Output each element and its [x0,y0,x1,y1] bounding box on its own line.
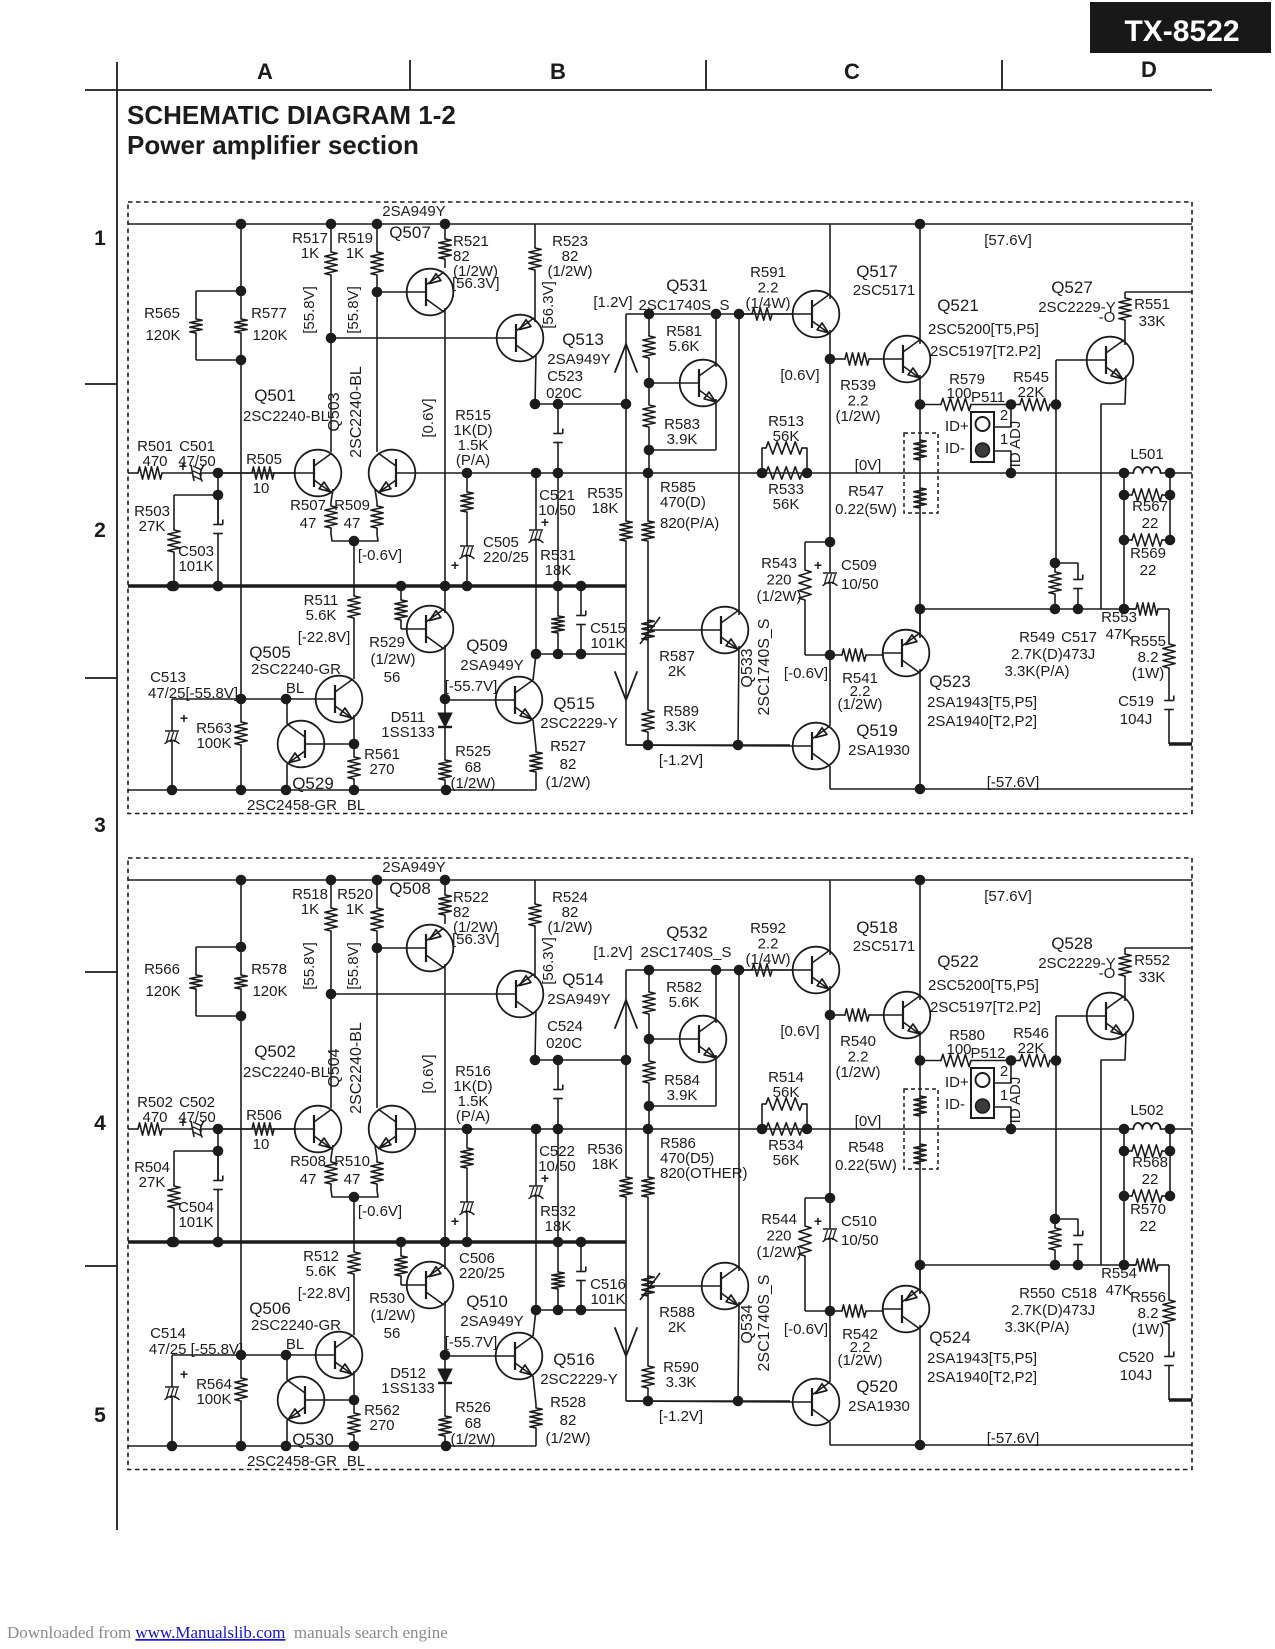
resistor R569 22 [1124,539,1132,541]
wire Q533 emitter [738,1302,739,1401]
svg-text:2SC5200[T5,P5]: 2SC5200[T5,P5] [928,321,1039,338]
wire output line [920,1264,1136,1266]
svg-text:R550: R550 [1019,1285,1055,1302]
wire Q531 collector [715,314,717,367]
svg-text:270: 270 [369,761,394,778]
svg-text:104J: 104J [1120,1367,1153,1384]
capacitor C505 220/25 [466,1192,468,1202]
svg-text:2SA1943[T5,P5]: 2SA1943[T5,P5] [927,1350,1037,1367]
svg-text:(1/2W): (1/2W) [838,1352,883,1369]
wire Q517 emitter [829,986,831,1198]
wire Q519 emitter [829,1311,831,1382]
resistor R587 2K variable [647,1276,649,1286]
junction [281,1441,292,1452]
transistor Q507 2SA949Y [407,269,454,316]
svg-text:R570: R570 [1130,1201,1166,1218]
svg-text:[56.3V]: [56.3V] [540,937,557,985]
resistor R521 82 (1/2W) [444,224,446,239]
wire Q529 base [323,1399,354,1401]
svg-text:R591: R591 [750,264,786,281]
svg-text:1SS133: 1SS133 [381,724,434,741]
transistor Q521 2SC5200 [884,336,931,383]
node Q513 base tap [326,989,337,1000]
wire Q509 emitter [444,1242,446,1269]
svg-text:Q502: Q502 [254,1042,296,1061]
svg-text:(1/4W): (1/4W) [746,295,791,312]
svg-text:Power amplifier section: Power amplifier section [127,130,419,160]
svg-text:2SC2229-Y: 2SC2229-Y [540,715,618,732]
wire Q523 collector [919,669,921,789]
svg-text:220: 220 [766,1228,791,1245]
svg-text:2SC2229-Y: 2SC2229-Y [540,1371,618,1388]
resistor R535 18K [625,1060,627,1177]
svg-text:2.7K(D): 2.7K(D) [1011,646,1063,663]
resistor R539 2.2 (1/2W) [830,358,845,360]
svg-text:5.6K: 5.6K [306,1263,337,1280]
resistor R527 82 (1/2W) [535,1404,537,1408]
svg-text:R569: R569 [1130,545,1166,562]
svg-text:220/25: 220/25 [483,549,529,566]
svg-text:2SA949Y: 2SA949Y [547,991,610,1008]
resistor R565 120K [195,291,197,319]
dashed schematic border [128,202,1192,814]
wire Q517 collector [829,880,831,955]
transistor Q533 2SC1740S_S [702,607,749,654]
wire to output R553 [1123,1196,1125,1265]
resistor R561 270 [353,1400,355,1413]
wire -1.2V line [626,744,790,746]
diode D511 1SS133 [444,699,446,713]
wire Q505 emitter [353,715,355,744]
wire R583 bottom [649,1105,716,1107]
svg-text:Q524: Q524 [929,1328,971,1347]
resistor R543 220 (1/2W) [825,537,836,548]
svg-text:ID+: ID+ [945,418,969,435]
svg-text:1: 1 [94,227,106,250]
svg-text:101K: 101K [178,558,213,575]
wire +57.6V top rail [128,879,1192,881]
resistor R579 100 [920,404,941,406]
svg-text:ID ADJ: ID ADJ [1007,1077,1024,1124]
wire Q507 base [377,291,406,293]
svg-text:27K: 27K [139,1174,166,1191]
svg-text:R552: R552 [1134,952,1170,969]
svg-text:C509: C509 [841,557,877,574]
svg-text:Q530: Q530 [292,1430,334,1449]
wire -57.6V bottom rail right segment [830,788,1192,790]
resistor R521 82 (1/2W) [444,880,446,895]
resistor R539 2.2 (1/2W) [830,1014,845,1016]
resistor R547 0.22(5W) [914,440,926,460]
svg-text:C524: C524 [547,1018,583,1035]
svg-text:2SC2240-GR: 2SC2240-GR [251,661,341,678]
resistor R551 33K [1124,292,1126,298]
wire Q529 emitter [286,1420,288,1446]
transistor Q515 2SC2229-Y [496,677,543,724]
transistor Q517 2SC5171 [793,291,840,338]
svg-text:Q509: Q509 [466,636,508,655]
transistor Q527 2SC2229-Y [1087,993,1134,1040]
svg-text:Q528: Q528 [1051,934,1093,953]
svg-text:5.6K: 5.6K [306,607,337,624]
svg-text:(P/A): (P/A) [456,1108,490,1125]
connector P511 ID [971,412,994,462]
transistor Q509 2SA949Y [407,606,454,653]
junction [441,1441,452,1452]
svg-text:2.7K(D): 2.7K(D) [1011,1302,1063,1319]
svg-text:(1W): (1W) [1132,665,1165,682]
wire 1.2V node [626,969,793,971]
wire R545 node down [1055,1016,1057,1219]
svg-text:3.3K: 3.3K [666,1374,697,1391]
transistor Q527 2SC2229-Y [1087,337,1134,384]
svg-text:Q522: Q522 [937,952,979,971]
svg-text:Q506: Q506 [249,1299,291,1318]
resistor R563 100K [240,1355,242,1378]
svg-text:4: 4 [94,1112,106,1135]
diode D511 1SS133 [444,1355,446,1369]
svg-text:33K: 33K [1139,969,1166,986]
svg-text:[56.3V]: [56.3V] [452,275,500,292]
svg-text:-O: -O [1099,965,1116,982]
resistor R515 1K(D) [466,473,468,492]
svg-text:R509: R509 [334,497,370,514]
svg-text:P512: P512 [970,1045,1005,1062]
wire R583 bottom [649,449,716,451]
svg-text:47/50: 47/50 [178,453,216,470]
transistor Q503 2SC2240-BL [369,1106,416,1153]
svg-text:820(P/A): 820(P/A) [660,515,719,532]
capacitor C517 473J [1077,1219,1079,1236]
svg-text:2SA1943[T5,P5]: 2SA1943[T5,P5] [927,694,1037,711]
svg-text:10/50: 10/50 [841,1232,879,1249]
svg-text:C518: C518 [1061,1285,1097,1302]
wire Q529 emitter [286,764,288,790]
wire node to R503/C503 [217,1129,219,1180]
svg-text:Q520: Q520 [856,1377,898,1396]
svg-text:22K: 22K [1018,1040,1045,1057]
svg-text:2SC5200[T5,P5]: 2SC5200[T5,P5] [928,977,1039,994]
svg-text:R548: R548 [848,1139,884,1156]
svg-text:18K: 18K [592,500,619,517]
svg-text:C523: C523 [547,368,583,385]
svg-text:[55.8V]: [55.8V] [345,286,362,334]
svg-text:120K: 120K [252,327,287,344]
capacitor C515 101K [580,1241,582,1272]
wire Q521 emitter [919,375,921,637]
svg-text:2SC1740S_S: 2SC1740S_S [756,619,773,716]
svg-text:[0.6V]: [0.6V] [420,1054,437,1093]
transistor Q529 2SC2458-GR [278,1377,325,1424]
svg-text:101K: 101K [178,1214,213,1231]
svg-text:[57.6V]: [57.6V] [984,232,1032,249]
wire Q533 collector [738,314,740,615]
svg-text:R529: R529 [369,634,405,651]
svg-text:1K: 1K [346,901,364,918]
svg-text:[-22.8V]: [-22.8V] [298,629,351,646]
resistor R529 56 (1/2W) [400,1242,402,1256]
resistor R527 82 (1/2W) [535,748,537,752]
svg-text:2.2: 2.2 [758,936,779,953]
svg-text:2SA949Y: 2SA949Y [382,203,445,220]
wire +57.6V top rail [128,223,1192,225]
wire Q521 emitter [919,1031,921,1293]
svg-text:10: 10 [253,480,270,497]
svg-text:2SA949Y: 2SA949Y [382,859,445,876]
wire Q519 collector [829,1422,831,1445]
svg-text:ID+: ID+ [945,1074,969,1091]
svg-text:[-0.6V]: [-0.6V] [358,547,402,564]
wire bootstrap branch [240,224,242,291]
svg-text:R578: R578 [251,961,287,978]
svg-text:2: 2 [94,519,106,542]
svg-text:[-22.8V]: [-22.8V] [298,1285,351,1302]
wire input node [218,1128,296,1130]
svg-text:Q517: Q517 [856,262,898,281]
svg-text:[-0.6V]: [-0.6V] [358,1203,402,1220]
wire R545 node down [1055,360,1057,563]
svg-text:C510: C510 [841,1213,877,1230]
svg-text:2SC5171: 2SC5171 [853,282,916,299]
svg-text:120K: 120K [252,983,287,1000]
svg-text:(1W): (1W) [1132,1321,1165,1338]
svg-text:2SA1930: 2SA1930 [848,1398,910,1415]
wire -57.6V bottom rail left segment [128,789,536,791]
transistor Q503 2SC2240-BL [369,450,416,497]
wire output line [920,608,1136,610]
svg-text:18K: 18K [592,1156,619,1173]
svg-text:220: 220 [766,572,791,589]
junction [915,1440,926,1451]
svg-text:R526: R526 [455,1399,491,1416]
svg-text:470(D): 470(D) [660,494,706,511]
wire Q533 emitter [738,646,739,745]
capacitor C517 473J [1077,563,1079,580]
svg-text:2SC1740S_S: 2SC1740S_S [756,1275,773,1372]
resistor R541 2.2 (1/2W) [830,1310,842,1312]
transistor Q521 2SC5200 [884,992,931,1039]
svg-text:Q505: Q505 [249,643,291,662]
capacitor C503 101K [217,1151,219,1181]
wire Q513 collector node [535,403,626,405]
svg-text:[-57.6V]: [-57.6V] [987,774,1040,791]
svg-text:2K: 2K [668,663,686,680]
resistor R549 2.7K(D) [1055,1218,1078,1220]
resistor R579 100 [920,1060,941,1062]
svg-text:(P/A): (P/A) [456,452,490,469]
svg-text:(1/2W): (1/2W) [548,263,593,280]
capacitor C521 10/50 [535,473,537,530]
svg-text:2SA949Y: 2SA949Y [460,1313,523,1330]
svg-text:R543: R543 [761,555,797,572]
svg-text:47K: 47K [1106,1282,1133,1299]
svg-text:Q508: Q508 [389,879,431,898]
svg-text:R566: R566 [144,961,180,978]
svg-text:R505: R505 [246,451,282,468]
svg-text:33K: 33K [1139,313,1166,330]
svg-text:R565: R565 [144,305,180,322]
svg-text:3.9K: 3.9K [667,431,698,448]
wire Q531 collector [715,970,717,1023]
svg-text:020C: 020C [546,385,582,402]
svg-text:120K: 120K [145,983,180,1000]
svg-text:Downloaded from www.Manualslib: Downloaded from www.Manualslib.com manua… [7,1623,448,1642]
svg-text:5.6K: 5.6K [669,994,700,1011]
wire Q527 emitter [1101,376,1126,609]
svg-text:22K: 22K [1018,384,1045,401]
wire speaker out [1170,472,1192,474]
svg-text:100K: 100K [196,735,231,752]
svg-text:2SA1930: 2SA1930 [848,742,910,759]
resistor R501 470 [128,472,138,474]
svg-text:8.2: 8.2 [1138,649,1159,666]
svg-text:R549: R549 [1019,629,1055,646]
wire Q505 base line [172,1354,316,1356]
wire to output R553 [1123,540,1125,609]
svg-text:(1/2W): (1/2W) [836,408,881,425]
junction [915,784,926,795]
svg-text:SCHEMATIC DIAGRAM 1-2: SCHEMATIC DIAGRAM 1-2 [127,100,456,130]
resistor R509 47 [375,1145,377,1158]
resistor R511 5.6K [353,541,355,596]
dashed box R547 [904,1089,938,1169]
resistor R519 1K [376,224,378,252]
wire Q519 emitter [829,655,831,726]
capacitor C509 10/50 [829,542,831,573]
svg-text:R527: R527 [550,738,586,755]
wire R551 top [1125,947,1192,949]
svg-text:3.9K: 3.9K [667,1087,698,1104]
svg-text:[56.3V]: [56.3V] [540,281,557,329]
svg-text:[55.8V]: [55.8V] [345,942,362,990]
wire cap bottoms [536,653,626,655]
svg-text:[-55.7V]: [-55.7V] [445,678,498,695]
transistor Q531 2SC1740S_S [680,360,727,407]
svg-text:C513: C513 [150,669,186,686]
svg-text:2SC2458-GR: 2SC2458-GR [247,797,337,814]
resistor R505 10 [218,472,252,474]
resistor R545 22K [1011,404,1020,406]
capacitor C501 47/50 [189,472,192,474]
wire Q515 emitter [533,1376,536,1404]
row tick 1 [85,383,117,385]
svg-text:D: D [1141,57,1157,82]
svg-text:2SC5171: 2SC5171 [853,938,916,955]
svg-text:R592: R592 [750,920,786,937]
resistor R553 47K [1124,1264,1136,1266]
wire Q519 collector [829,766,831,789]
svg-text:2SA1940[T2,P2]: 2SA1940[T2,P2] [927,1369,1037,1386]
svg-text:56K: 56K [773,496,800,513]
svg-text:R508: R508 [290,1153,326,1170]
resistor R531 18K [557,1129,559,1272]
svg-text:[55.8V]: [55.8V] [301,286,318,334]
svg-text:82: 82 [560,1412,577,1429]
svg-text:Q514: Q514 [562,970,604,989]
svg-text:104J: 104J [1120,711,1153,728]
resistor R541 2.2 (1/2W) [830,654,842,656]
svg-text:[56.3V]: [56.3V] [452,931,500,948]
svg-text:3.3K: 3.3K [666,718,697,735]
resistor R513 56K [761,1104,763,1129]
wire emitter join [331,1190,378,1197]
wire 0V rail [415,472,1124,474]
wire Q513 base [331,337,497,339]
svg-text:101K: 101K [590,635,625,652]
svg-text:101K: 101K [590,1291,625,1308]
svg-text:470: 470 [142,453,167,470]
svg-text:2SC1740S_S: 2SC1740S_S [641,944,732,961]
svg-text:(1/2W): (1/2W) [371,651,416,668]
svg-text:Q529: Q529 [292,774,334,793]
wire Q527 base [1056,1015,1087,1017]
capacitor C503 101K [217,495,219,525]
wire node to R503/C503 [217,473,219,524]
resistor R591 2.2 (1/4W) [739,969,752,971]
svg-text:5.6K: 5.6K [669,338,700,355]
svg-text:(1/2W): (1/2W) [757,588,802,605]
ruler vertical [116,62,118,1530]
svg-text:2K: 2K [668,1319,686,1336]
svg-text:Q507: Q507 [389,223,431,242]
svg-text:[-1.2V]: [-1.2V] [659,1408,703,1425]
wire Q527 emitter [1101,1032,1126,1265]
resistor R565 120K [195,947,197,975]
resistor R507 47 [331,489,333,502]
wire Q529 collector [286,699,288,724]
svg-text:R530: R530 [369,1290,405,1307]
svg-text:R528: R528 [550,1394,586,1411]
transistor Q517 2SC5171 [793,947,840,994]
svg-text:Q521: Q521 [937,296,979,315]
wire Q523 emitter [919,1265,921,1294]
svg-text:2.2: 2.2 [758,280,779,297]
wire Q519 base [626,745,793,746]
resistor R543 220 (1/2W) [825,1193,836,1204]
junction [349,1441,360,1452]
wire Q513 collector [535,354,536,404]
resistor R535 18K [625,404,627,521]
wire Q505 emitter [353,1371,355,1400]
svg-text:2SC2240-BL: 2SC2240-BL [243,408,329,425]
svg-text:(1/2W): (1/2W) [757,1244,802,1261]
svg-text:10/50: 10/50 [538,502,576,519]
wire Q513 base [331,993,497,995]
transistor Q505 2SC2240-GR [316,676,363,723]
resistor R555 8.2 (1W) [1168,1265,1170,1300]
svg-text:(1/2W): (1/2W) [546,774,591,791]
wire Q523 collector [919,1325,921,1445]
ruler horizontal [85,89,1212,91]
svg-text:Q534: Q534 [739,1304,756,1343]
capacitor C515 101K [580,585,582,616]
transistor Q519 2SA1930 [793,723,840,770]
wire L501 frame [1123,473,1125,540]
svg-text:[-0.6V]: [-0.6V] [784,665,828,682]
wire Q531 emitter [715,1055,717,1106]
svg-text:Q504: Q504 [326,1048,343,1087]
svg-text:R506: R506 [246,1107,282,1124]
junction [281,785,292,796]
wire Q513 collector node [535,1059,626,1061]
svg-text:2SC2458-GR: 2SC2458-GR [247,1453,337,1470]
svg-text:+: + [451,1213,459,1229]
svg-text:Q515: Q515 [553,694,595,713]
wire Q531 emitter [715,399,717,450]
svg-text:[1.2V]: [1.2V] [593,294,632,311]
transistor Q501 2SC2240-BL [295,1106,342,1153]
svg-text:56: 56 [384,669,401,686]
